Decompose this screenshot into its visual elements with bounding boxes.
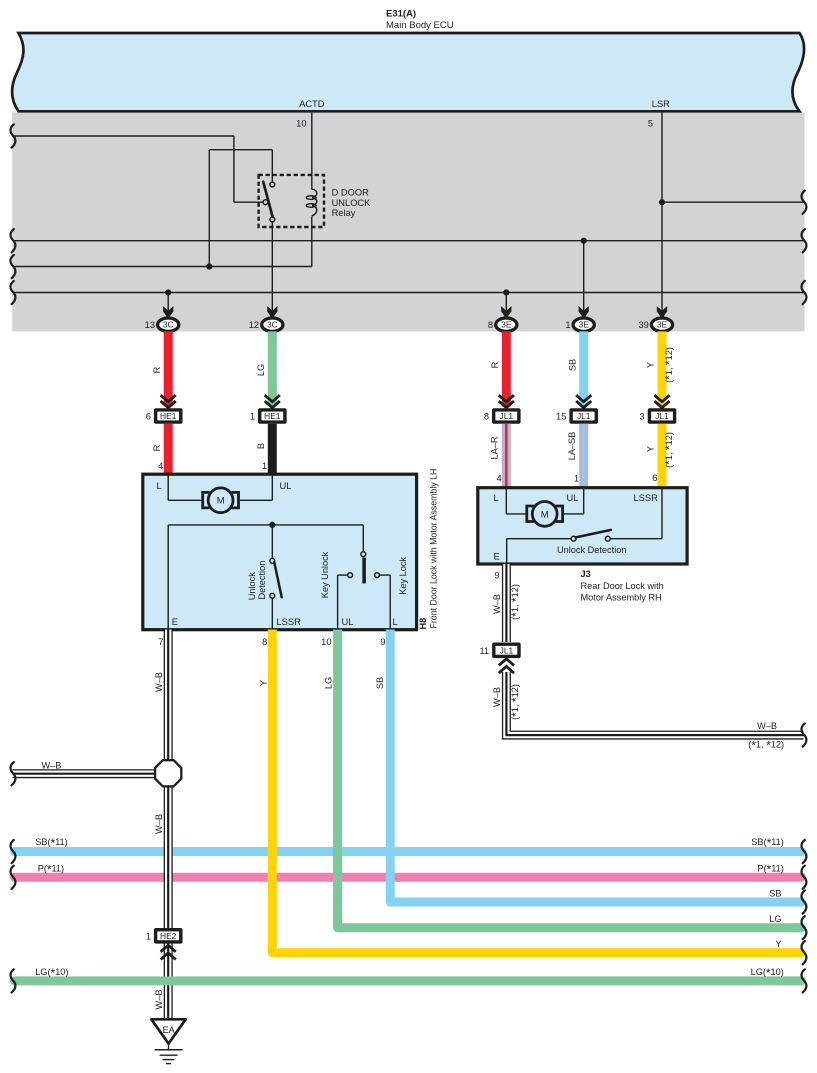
wire left feed to relay switch common — [13, 135, 234, 137]
svg-text:E: E — [494, 552, 500, 562]
svg-text:SB: SB — [769, 889, 781, 899]
svg-text:HE2: HE2 — [160, 931, 177, 941]
svg-text:W–B: W–B — [492, 687, 502, 707]
key switch top contact — [361, 552, 366, 557]
arrow into HE1 pin 6 — [161, 395, 176, 402]
break mark left lineA — [10, 229, 15, 252]
connector 3C pin 13 — [158, 318, 179, 331]
svg-text:JL1: JL1 — [500, 411, 514, 421]
wire LA-R JL1 to rear box pin 4 — [502, 424, 511, 489]
connector HE1 pin 6 — [154, 408, 183, 424]
bus line A across shield — [13, 240, 804, 242]
svg-text:Y: Y — [258, 680, 268, 686]
svg-text:JL1: JL1 — [500, 645, 514, 655]
wire L to motor — [167, 475, 169, 500]
svg-text:12: 12 — [249, 320, 259, 330]
svg-text:Relay: Relay — [332, 208, 356, 218]
svg-text:LSSR: LSSR — [277, 617, 302, 627]
svg-text:L: L — [157, 481, 162, 491]
junction dot on line B — [206, 263, 212, 269]
svg-text:R: R — [152, 366, 162, 373]
arrow into connector 39 3E — [657, 306, 667, 319]
connector 3E pin 1 — [573, 318, 594, 331]
wire Y JL1 to rear box pin 6 — [658, 424, 667, 489]
svg-text:W–B: W–B — [154, 672, 164, 692]
svg-text:6: 6 — [652, 473, 657, 483]
relay switch common contact — [263, 200, 268, 205]
ground EA triangle — [151, 1019, 185, 1043]
svg-text:HE1: HE1 — [264, 411, 281, 421]
motor M rear — [527, 506, 534, 522]
svg-text:M: M — [541, 508, 549, 519]
junction dot line C right — [503, 289, 509, 295]
break mark left line1 — [10, 124, 15, 147]
svg-text:11: 11 — [479, 646, 489, 656]
svg-text:B: B — [256, 443, 266, 449]
wire rear LSSR to switch — [661, 489, 663, 539]
wire down to 8 3E — [505, 293, 507, 312]
ground symbol — [168, 1044, 170, 1050]
svg-text:1: 1 — [574, 474, 579, 484]
svg-text:10: 10 — [321, 637, 331, 647]
junction dot front bus — [269, 522, 275, 528]
junction dot LSR branch — [659, 199, 665, 205]
component box H8 Front Door Lock with Motor Assembly LH — [143, 474, 417, 630]
svg-text:LG: LG — [256, 364, 266, 376]
junction dot line C left — [165, 289, 171, 295]
wire P(*11) horizontal — [15, 873, 802, 882]
wire SB to JL1 — [579, 331, 588, 406]
svg-text:L: L — [494, 493, 499, 503]
svg-text:8: 8 — [262, 637, 267, 647]
svg-text:Rear Door Lock with: Rear Door Lock with — [581, 581, 664, 591]
bus line B to coil return — [13, 266, 312, 268]
break mark W-B right — [801, 724, 806, 747]
svg-text:Motor Assembly RH: Motor Assembly RH — [581, 593, 662, 603]
rear unlock detection blade — [576, 530, 611, 538]
svg-text:15: 15 — [556, 412, 566, 422]
svg-text:W–B: W–B — [757, 721, 777, 731]
svg-text:L: L — [393, 617, 398, 627]
svg-text:Main Body ECU: Main Body ECU — [386, 20, 454, 31]
junction octagon — [155, 760, 181, 786]
connector 3E pin 39 — [651, 318, 672, 331]
wire R to JL1 — [502, 331, 511, 406]
svg-text:E31(A): E31(A) — [386, 9, 416, 20]
component box J3 Rear Door Lock with Motor Assembly RH — [478, 488, 687, 564]
break mark Y right — [801, 941, 806, 964]
wire bus to key switch — [362, 525, 364, 552]
svg-text:UL: UL — [342, 617, 354, 627]
svg-text:Front Door Lock with Motor Ass: Front Door Lock with Motor Assembly LH — [429, 469, 439, 629]
rear unlock detection right contact — [605, 536, 610, 541]
wire B HE1 to front box pin 1 — [268, 424, 277, 476]
wire Y from LSSR pin to right — [272, 630, 798, 953]
wire LSR branch right — [662, 201, 804, 203]
connector 3C pin 12 — [262, 318, 283, 331]
svg-text:4: 4 — [497, 474, 502, 484]
connector JL1 pin 8 — [492, 408, 521, 424]
svg-text:3C: 3C — [267, 320, 278, 330]
svg-text:W–B: W–B — [492, 594, 502, 614]
break mark left lineB — [10, 255, 15, 278]
wire W-B horizontal from left — [13, 769, 159, 778]
wire W-B E pin to octagon — [164, 630, 173, 761]
svg-text:3C: 3C — [163, 320, 174, 330]
svg-text:1: 1 — [146, 932, 151, 942]
break mark right lineA — [801, 229, 806, 252]
connector 3E pin 8 — [496, 318, 517, 331]
svg-text:13: 13 — [145, 320, 155, 330]
svg-text:6: 6 — [146, 412, 151, 422]
bus line C across shield — [13, 292, 804, 294]
wire SB from L pin to right — [390, 630, 798, 903]
svg-text:5: 5 — [648, 119, 653, 129]
key switch blade — [362, 558, 366, 584]
svg-text:Y: Y — [646, 362, 656, 368]
Main Body ECU block E31(A) — [12, 33, 804, 111]
svg-text:LA–SB: LA–SB — [567, 432, 577, 461]
wire W-B octagon to HE2 — [164, 786, 173, 928]
svg-text:1: 1 — [565, 320, 570, 330]
svg-text:D DOOR: D DOOR — [332, 188, 369, 198]
arrow out of JL1 pin 11 — [499, 659, 514, 666]
wire branch to relay switch top contact — [209, 149, 272, 151]
svg-text:JL1: JL1 — [655, 411, 669, 421]
relay switch bottom contact — [270, 217, 275, 222]
svg-text:LA–R: LA–R — [490, 436, 500, 459]
rear unlock detection left contact — [571, 536, 576, 541]
connector HE2 pin 1 — [154, 928, 183, 944]
break marks SB(*11) — [10, 840, 15, 863]
svg-text:E: E — [172, 617, 178, 627]
wire ACTD pin 10 to relay coil — [311, 111, 313, 189]
svg-text:LSR: LSR — [652, 99, 670, 109]
svg-text:9: 9 — [494, 571, 499, 581]
svg-text:Key Lock: Key Lock — [398, 557, 408, 595]
unlock detection blade — [274, 562, 281, 597]
svg-text:J3: J3 — [581, 569, 591, 579]
relay box (dashed) — [259, 175, 324, 227]
wire LSR pin 5 down to 39 3E — [661, 111, 663, 311]
arrow out of HE2 — [161, 945, 176, 952]
svg-text:R: R — [152, 444, 162, 451]
svg-text:SB: SB — [375, 677, 385, 689]
svg-text:Y: Y — [646, 446, 656, 452]
wire Y to JL1 — [658, 331, 667, 406]
front internal bus — [168, 524, 363, 526]
wire R HE1 to front box pin 4 — [164, 424, 173, 476]
svg-text:8: 8 — [484, 412, 489, 422]
svg-text:LG: LG — [769, 914, 781, 924]
wire UL to motor — [271, 475, 273, 500]
relay switch blade — [263, 182, 272, 217]
svg-text:H8: H8 — [418, 618, 428, 630]
svg-text:EA: EA — [162, 1025, 175, 1035]
svg-text:ACTD: ACTD — [299, 99, 325, 109]
svg-text:R: R — [490, 361, 500, 368]
wire W-B JL1 to right edge — [506, 672, 803, 735]
connector JL1 pin 11 — [492, 643, 521, 659]
wire key unlock to UL pin — [338, 574, 348, 576]
svg-text:SB: SB — [568, 359, 578, 371]
svg-text:Y: Y — [775, 939, 781, 949]
svg-text:1: 1 — [262, 461, 267, 471]
break marks LG(*10) — [10, 969, 15, 992]
wire rear UL to motor — [583, 489, 585, 514]
svg-text:10: 10 — [296, 119, 306, 129]
svg-text:1: 1 — [250, 412, 255, 422]
svg-text:W–B: W–B — [154, 814, 164, 834]
break marks P(*11) — [10, 866, 15, 889]
svg-text:UL: UL — [567, 493, 579, 503]
arrow into connector 1 3E — [579, 306, 589, 319]
svg-text:4: 4 — [158, 461, 163, 471]
svg-text:LG: LG — [324, 677, 334, 689]
wire down to 1 3E — [583, 241, 585, 312]
arrow into connector 13 3C — [163, 306, 173, 319]
arrow into connector 12 3C — [267, 306, 277, 319]
svg-text:JL1: JL1 — [577, 411, 591, 421]
break mark right LSR branch — [801, 191, 806, 214]
svg-text:Unlock Detection: Unlock Detection — [557, 545, 626, 555]
break mark left lineC — [10, 281, 15, 304]
Main Body ECU internal shield area — [12, 112, 804, 331]
wire LG(*10) horizontal — [15, 976, 802, 985]
svg-text:Detection: Detection — [257, 561, 267, 600]
svg-text:Key Unlock: Key Unlock — [320, 551, 330, 598]
svg-text:8: 8 — [488, 320, 493, 330]
wire unlock detection to LSSR pin — [271, 598, 273, 629]
junction dot line A — [581, 238, 587, 244]
motor M front — [203, 492, 210, 508]
wire LG from UL pin to right — [338, 630, 798, 928]
arrow into JL1 pin 15 — [576, 395, 591, 402]
svg-text:UL: UL — [280, 481, 292, 491]
key unlock contact — [348, 573, 353, 578]
wire rear L to motor — [505, 489, 507, 514]
relay switch top contact — [270, 182, 275, 187]
svg-text:3E: 3E — [657, 320, 668, 330]
wire to unlock detection switch — [271, 525, 273, 559]
break mark SB right — [801, 890, 806, 913]
svg-text:M: M — [217, 495, 225, 506]
wire down to 13 3C — [167, 293, 169, 312]
arrow into JL1 pin 3 — [654, 395, 669, 402]
svg-text:LSSR: LSSR — [634, 493, 659, 503]
connector HE1 pin 1 — [258, 408, 287, 424]
wire LA-SB JL1 to rear box pin 1 — [579, 424, 588, 489]
break mark right lineC — [801, 281, 806, 304]
svg-text:3: 3 — [640, 412, 645, 422]
unlock detection top contact — [270, 558, 275, 563]
wire rear switch to E — [507, 538, 572, 540]
relay coil — [312, 189, 317, 216]
wire LG to HE1 — [268, 331, 277, 406]
svg-text:HE1: HE1 — [160, 411, 177, 421]
svg-text:39: 39 — [638, 320, 648, 330]
break mark W-B left — [10, 762, 15, 785]
wire relay switch to 12 3C — [271, 222, 273, 312]
arrow into connector 8 3E — [501, 306, 511, 319]
wire key lock to L pin — [379, 574, 390, 576]
svg-text:3E: 3E — [579, 320, 590, 330]
unlock detection bottom contact — [270, 593, 275, 598]
arrow into HE1 pin 1 — [265, 395, 280, 402]
svg-text:Unlock: Unlock — [247, 572, 257, 600]
svg-text:7: 7 — [158, 637, 163, 647]
wire W-B rear E to JL1 — [502, 564, 511, 642]
svg-text:9: 9 — [380, 637, 385, 647]
svg-text:3E: 3E — [501, 320, 512, 330]
svg-text:UNLOCK: UNLOCK — [332, 198, 372, 208]
arrow into JL1 pin 8 — [499, 395, 514, 402]
wire SB(*11) horizontal — [15, 847, 802, 856]
break mark LG right — [801, 916, 806, 939]
key lock contact — [375, 573, 380, 578]
connector JL1 pin 3 — [648, 408, 677, 424]
wire W-B HE2 to EA ground — [164, 943, 173, 1019]
svg-text:W–B: W–B — [42, 761, 62, 771]
svg-text:W–B: W–B — [154, 990, 164, 1010]
connector JL1 pin 15 — [569, 408, 598, 424]
wire R to HE1 — [164, 331, 173, 406]
